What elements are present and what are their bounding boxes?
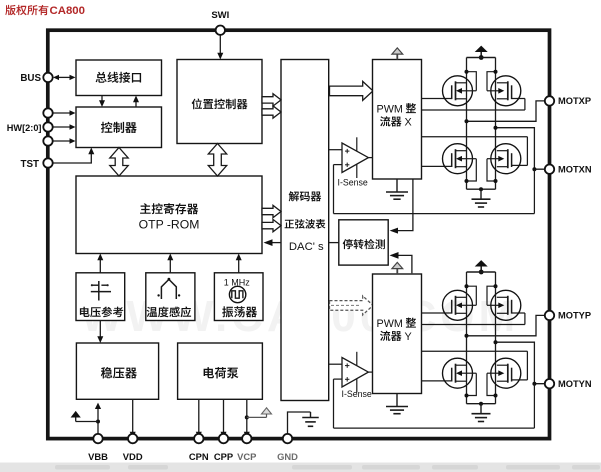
hollow arrow position-controller to decoder 1	[262, 94, 281, 106]
transistor Y high-side right	[487, 290, 521, 320]
transistor Y high-side left	[443, 290, 477, 320]
svg-text:MOTYP: MOTYP	[558, 311, 591, 321]
wire sense Y	[334, 379, 535, 428]
block 电荷泵 (charge pump)	[178, 343, 263, 399]
body hook BL Y	[465, 373, 477, 397]
voltage reference icon	[91, 281, 111, 301]
block 主控寄存器 OTP-ROM (main control register)	[76, 176, 262, 254]
wire PWM X gate BL	[422, 165, 452, 167]
transistor X high-side right	[487, 76, 521, 106]
VBB power flag	[71, 411, 98, 422]
arrow oscillator to OTP	[236, 254, 242, 273]
pin MOTXP	[545, 96, 591, 106]
svg-text:SWI: SWI	[211, 10, 229, 21]
wire bottom rail Y	[467, 402, 496, 406]
svg-text:MOTYN: MOTYN	[558, 379, 592, 389]
dashed hollow arrow decoder to PWM Y	[330, 296, 374, 315]
svg-text:I-Sense: I-Sense	[342, 389, 372, 399]
pin CPP	[214, 434, 233, 462]
bottom page band	[0, 463, 601, 472]
body hook TR Y	[487, 284, 498, 305]
block 振荡器 (oscillator)	[214, 273, 263, 321]
wire HW2 arrow	[52, 138, 75, 143]
ground below PWM Y	[386, 394, 408, 414]
IC boundary box	[48, 30, 550, 438]
transistor X high-side left	[443, 76, 477, 106]
wire top rail X	[467, 57, 496, 59]
transistor X low-side right	[487, 144, 521, 174]
VBB flag bridge X	[475, 46, 488, 60]
power flag on PWM Y box	[392, 262, 403, 274]
svg-text:VBB: VBB	[88, 451, 108, 462]
wire half-bridge left vertical Y	[466, 272, 468, 404]
wire SWI stem	[217, 35, 223, 60]
VCP power flag	[247, 408, 272, 418]
svg-text:VCP: VCP	[237, 451, 256, 462]
body hook BL X	[465, 159, 477, 183]
block 位置控制器 (position controller)	[177, 60, 262, 144]
wire GND pin to ground	[288, 412, 311, 439]
ground bridge Y	[472, 404, 491, 422]
transistor Y low-side left	[443, 358, 477, 388]
body hook BR Y	[487, 373, 498, 397]
wire HW0 arrow	[52, 110, 75, 115]
wire sense X	[334, 165, 535, 214]
pin GND	[277, 434, 298, 462]
transistor Y low-side right	[487, 358, 521, 388]
ground symbol at GND pin	[302, 412, 319, 426]
hollow arrow decoder to PWM X	[330, 81, 374, 100]
wire PWM Y gate BL	[422, 380, 452, 382]
wire TST to controller	[52, 148, 94, 164]
wire half-bridge left vertical X	[466, 58, 468, 190]
wire to MOTXN	[494, 126, 550, 172]
arrow decoder to OTP	[264, 239, 282, 246]
svg-text:CA800: CA800	[50, 5, 85, 17]
oscillator icon	[229, 286, 245, 302]
pin MOTYP	[545, 311, 591, 321]
svg-text:OTP -ROM: OTP -ROM	[139, 218, 200, 232]
wire chargepump to VCP	[244, 399, 250, 438]
wire VBB to regulator	[95, 403, 101, 439]
block 总线接口 (bus interface)	[76, 60, 162, 96]
wire to MOTYN	[494, 340, 550, 386]
temperature sense icon	[157, 278, 180, 299]
arrow tempsense to OTP	[167, 254, 173, 273]
watermark	[81, 292, 519, 341]
pin MOTYN	[545, 379, 592, 389]
body hook TL X	[465, 70, 477, 91]
copyright text 版权所有	[5, 5, 48, 15]
VBB flag bridge Y	[475, 260, 488, 274]
block 电压参考 (voltage reference)	[76, 273, 125, 321]
svg-text:CPN: CPN	[189, 451, 209, 462]
wire PWM X mid node	[422, 99, 525, 111]
svg-text:BUS: BUS	[20, 73, 41, 84]
svg-text:X: X	[405, 117, 412, 129]
wire half-bridge right vertical Y	[495, 272, 497, 404]
PWM block 整流器 Y (PWM rectifier Y)	[373, 274, 422, 394]
pin CPN	[189, 434, 209, 462]
wire PWM X gate BR long	[422, 137, 528, 166]
double arrow controller/OTP	[110, 148, 128, 177]
wire PWM Y mid node	[422, 313, 525, 325]
wire bottom rail X	[467, 187, 496, 191]
copyright text CA800	[50, 5, 85, 17]
block 解码器/正弦波表/DAC's (decoder, sine table, DACs)	[281, 60, 329, 401]
block 温度感应 (temperature sense)	[146, 273, 195, 321]
pin MOTXN	[545, 165, 592, 175]
pin HW2	[43, 136, 52, 145]
svg-text:MOTXN: MOTXN	[558, 165, 592, 175]
bottom band text remnants	[55, 465, 600, 470]
arrow vref to OTP	[97, 254, 103, 273]
wire PWM Y gate BR long	[422, 351, 528, 380]
svg-text:CPP: CPP	[214, 451, 233, 462]
pin VCP	[237, 434, 256, 462]
wire PWM-Y to stall-detect	[390, 252, 412, 273]
hollow arrow position-controller to decoder 2	[262, 106, 281, 118]
svg-text:VDD: VDD	[123, 451, 143, 462]
svg-text:HW[2:0]: HW[2:0]	[7, 123, 42, 133]
wire PWM Y gate TL	[422, 312, 452, 314]
double arrow position-controller/OTP	[208, 144, 226, 177]
svg-text:DAC' s: DAC' s	[289, 241, 324, 253]
arrow vref to regulator	[97, 321, 103, 344]
svg-text:GND: GND	[277, 451, 298, 462]
pin TST	[20, 158, 52, 170]
pin SWI	[211, 10, 229, 35]
ground below PWM X	[386, 179, 408, 199]
transistor X low-side left	[443, 144, 477, 174]
pin VDD	[123, 434, 143, 462]
arrow controller to bus-interface	[133, 96, 139, 108]
block 控制器 (controller)	[76, 107, 162, 148]
svg-text:TST: TST	[20, 159, 39, 170]
wire PWM X gate TL	[422, 98, 452, 100]
svg-text:PWM: PWM	[377, 103, 403, 115]
svg-text:Y: Y	[405, 331, 412, 343]
label I-Sense Y	[342, 389, 372, 399]
pin VBB	[88, 434, 108, 462]
svg-text:I-Sense: I-Sense	[338, 177, 368, 187]
power flag on PWM X box	[392, 48, 403, 60]
wire to MOTXP	[465, 101, 550, 123]
op-amp I-Sense X	[329, 137, 373, 178]
wire chargepump to CPN	[196, 399, 202, 438]
wire regulator to VDD	[130, 399, 136, 438]
wire BUS double arrow	[53, 75, 76, 80]
pin HW1	[7, 122, 53, 133]
PWM block 整流器 X (PWM rectifier X)	[373, 60, 422, 180]
svg-text:PWM: PWM	[377, 318, 403, 330]
block 稳压器 (regulator)	[76, 343, 158, 399]
body hook BR X	[487, 159, 498, 183]
svg-text:MOTXP: MOTXP	[558, 96, 591, 106]
pin HW0	[43, 108, 52, 117]
body hook TR X	[487, 70, 498, 91]
hollow arrow OTP to decoder 1	[262, 205, 281, 217]
wire half-bridge right vertical X	[495, 58, 497, 190]
wire PWM-X to stall-detect	[390, 179, 413, 234]
block 停转检测 (stall detection)	[339, 220, 388, 265]
wire decoder to stall-detect	[329, 242, 339, 244]
wire to MOTYP	[465, 315, 550, 337]
arrow bus-interface to controller	[99, 96, 105, 108]
wire top rail Y	[467, 271, 496, 273]
ground bridge X	[472, 189, 491, 207]
wire HW1 arrow	[52, 124, 75, 129]
op-amp I-Sense Y	[329, 352, 373, 393]
label I-Sense X	[338, 177, 368, 187]
body hook TL Y	[465, 284, 477, 305]
pin BUS	[20, 73, 52, 84]
hollow arrow OTP to decoder 2	[262, 219, 281, 231]
wire chargepump to CPP	[221, 399, 227, 438]
